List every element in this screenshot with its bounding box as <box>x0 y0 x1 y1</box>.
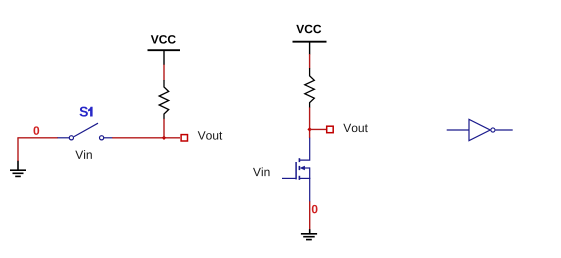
VCC symbol (middle) <box>293 25 327 55</box>
wire: switch to Vout port <box>112 137 180 139</box>
label Vin (left) <box>75 150 92 159</box>
label S1 <box>80 107 93 117</box>
wire: ground to switch (net 0) <box>17 138 58 161</box>
node label 0 (middle) <box>312 205 318 214</box>
transistor Q1 drain lead <box>300 138 310 160</box>
inverter U1 output wire <box>495 129 512 131</box>
resistor R2 <box>305 68 315 108</box>
wire: VCC to R2 <box>309 54 311 68</box>
transistor Q1 source lead <box>309 167 311 201</box>
inverter U1 input wire <box>447 129 470 131</box>
label Vout (middle) <box>343 124 368 132</box>
inverter U1 output bubble <box>491 128 495 132</box>
label Vout (left) <box>198 131 223 139</box>
junction node (left) <box>162 136 166 140</box>
transistor Q1 channel segments <box>298 158 300 180</box>
wire: junction to Vout port (middle) <box>310 128 327 130</box>
resistor R1 <box>159 80 169 119</box>
transistor Q1 gate lead (pin G) <box>282 177 297 179</box>
inverter U1 triangle <box>469 119 490 140</box>
port Vout (middle) <box>327 126 334 133</box>
wire: R2 to junction <box>309 107 311 138</box>
wire: R1 to junction <box>163 119 165 138</box>
node label 0 (left) <box>34 126 40 135</box>
label Vin (middle) <box>253 167 270 176</box>
VCC symbol (left) <box>148 35 181 65</box>
wire: source to ground (net 0) <box>309 201 311 229</box>
ground GND2 (middle circuit) <box>301 229 317 239</box>
port Vout (left) <box>181 135 187 141</box>
ground GND1 (left circuit) <box>10 161 26 177</box>
junction node (middle) <box>307 127 311 131</box>
transistor Q1 gate bar <box>295 162 297 179</box>
wire: VCC to R1 <box>163 65 165 81</box>
switch S1 <box>58 123 113 140</box>
transistor Q1 body connection with arrow <box>300 166 310 171</box>
transistor Q1 source contact <box>299 177 310 179</box>
